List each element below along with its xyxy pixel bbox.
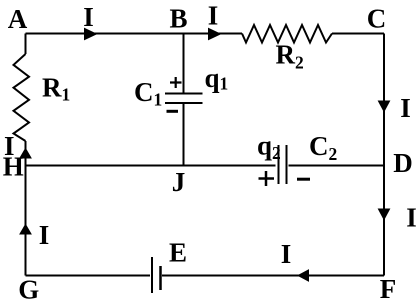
- svg-text:I: I: [39, 220, 50, 250]
- svg-text:I: I: [4, 131, 15, 161]
- svg-text:F: F: [380, 274, 397, 300]
- svg-text:I: I: [406, 203, 417, 233]
- svg-text:A: A: [8, 4, 28, 34]
- svg-text:I: I: [83, 2, 94, 32]
- svg-text:I: I: [400, 93, 411, 123]
- svg-text:I: I: [208, 1, 219, 31]
- svg-text:B: B: [169, 4, 187, 34]
- svg-text:J: J: [172, 167, 186, 197]
- svg-text:C: C: [367, 4, 387, 34]
- svg-text:E: E: [169, 238, 187, 268]
- svg-text:D: D: [393, 148, 413, 178]
- svg-text:G: G: [18, 275, 39, 300]
- svg-text:I: I: [281, 239, 292, 269]
